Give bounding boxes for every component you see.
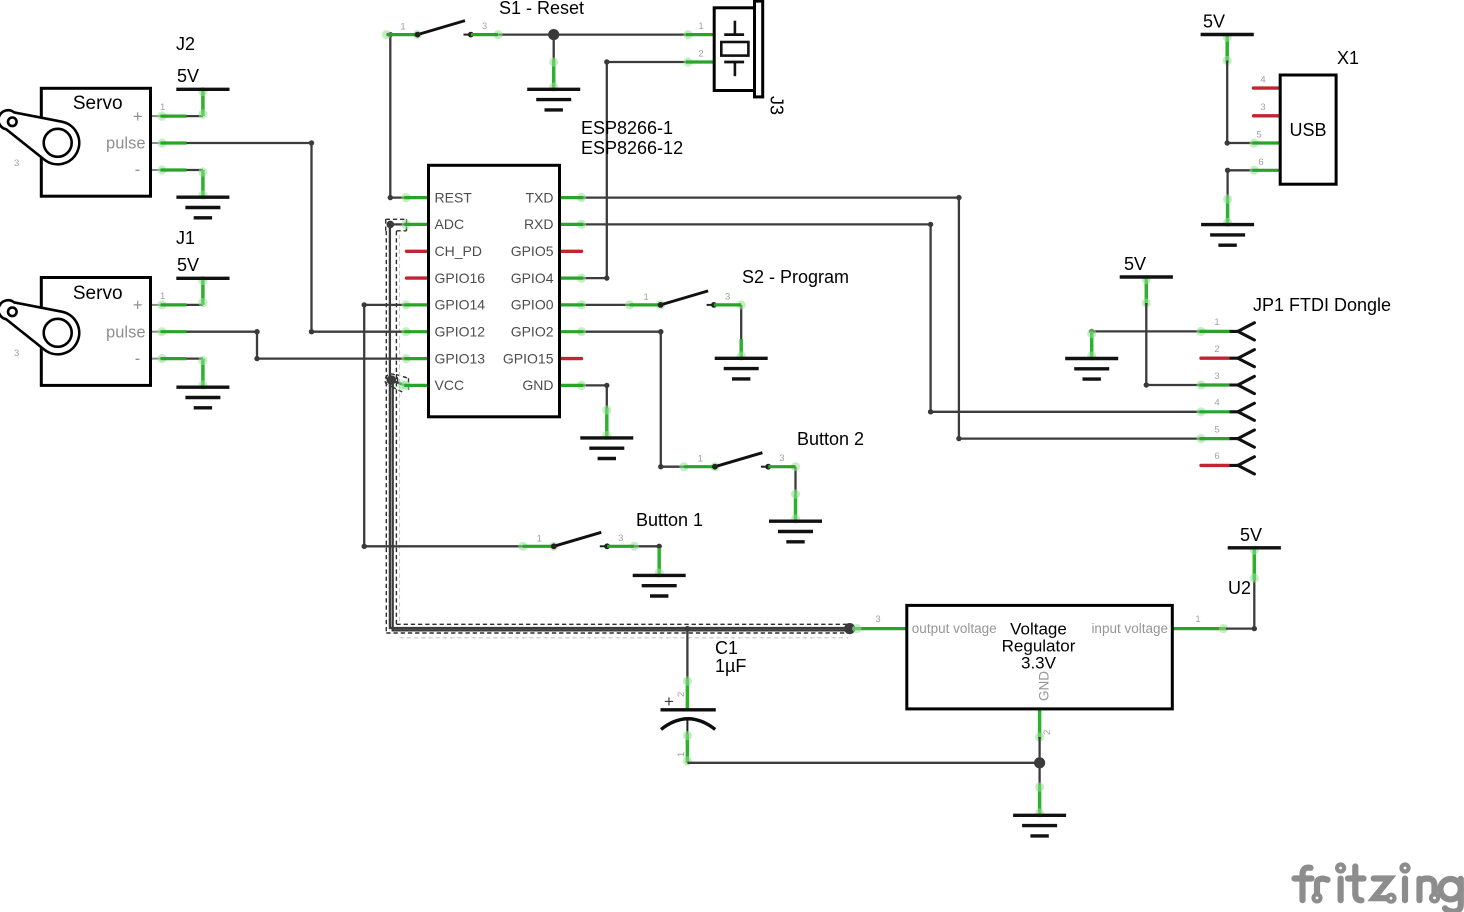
svg-text:GND: GND	[1037, 671, 1052, 701]
connector X1 USB body	[1280, 75, 1336, 184]
ground ESP GND	[580, 438, 633, 459]
svg-text:5: 5	[1214, 424, 1219, 435]
svg-text:5V: 5V	[177, 255, 199, 275]
svg-text:Servo: Servo	[73, 93, 123, 114]
svg-text:4: 4	[1214, 398, 1219, 409]
value 5V JP1	[1124, 254, 1146, 274]
capacitor C1 plates	[661, 692, 716, 729]
power 5V JP1	[1120, 276, 1173, 278]
label Servo J1	[73, 283, 123, 304]
wire TXD to JP1 pin5	[583, 195, 1199, 441]
svg-text:4: 4	[1260, 75, 1265, 86]
regulator name	[1002, 620, 1076, 673]
svg-text:5V: 5V	[177, 66, 199, 86]
ground S1	[527, 89, 580, 110]
node 3.3V output junction	[844, 623, 855, 634]
svg-text:-: -	[135, 161, 141, 179]
regulator pin numbers	[875, 614, 1200, 735]
svg-text:GPIO4: GPIO4	[511, 270, 554, 286]
svg-text:Button 1: Button 1	[636, 510, 703, 530]
servo J2 pin number 2	[14, 130, 19, 141]
JP1 unconnected pin 6 (red)	[1201, 464, 1230, 467]
label Servo J2	[73, 93, 123, 114]
servo J1 pin number 3	[14, 348, 19, 359]
svg-text:USB: USB	[1289, 120, 1326, 140]
svg-text:2: 2	[1042, 730, 1053, 735]
wire J1 minus pin to ground	[151, 354, 208, 390]
ground S2	[715, 358, 768, 379]
power 5V X1	[1201, 34, 1254, 36]
svg-text:REST: REST	[435, 189, 473, 205]
wire S1 pin1 to REST (vertical)	[388, 32, 405, 200]
net 3V3: dashed selection outline around ADC/VCC wire	[385, 219, 851, 638]
svg-text:J3: J3	[767, 96, 787, 115]
svg-text:RXD: RXD	[524, 216, 554, 232]
svg-text:U2: U2	[1228, 578, 1251, 598]
wire JP1 pin1 to ground	[1087, 329, 1199, 361]
svg-text:5: 5	[1256, 130, 1261, 141]
ESP8266 left pin legs (green)	[401, 193, 429, 390]
wire J2 pulse to GPIO12	[151, 138, 406, 334]
svg-text:CH_PD: CH_PD	[435, 243, 482, 259]
label JP1 FTDI Dongle	[1253, 295, 1391, 315]
wire S2 pin3 to ground	[737, 305, 746, 361]
ground Button1	[633, 575, 686, 596]
ESP8266 unconnected pin GPIO5 (red)	[559, 250, 582, 253]
ESP8266 unconnected pin GPIO16 (red)	[407, 276, 430, 279]
svg-text:S2 - Program: S2 - Program	[742, 267, 849, 287]
ground JP1	[1065, 359, 1118, 380]
ground J1	[176, 387, 229, 408]
ground J2	[176, 197, 229, 218]
wire J1 pulse to GPIO13	[151, 327, 406, 361]
svg-text:ESP8266-12: ESP8266-12	[581, 138, 683, 158]
wire ADC to 3.3V node (dashed-selected net)	[387, 221, 850, 631]
label ESP8266-1 / ESP8266-12	[581, 118, 683, 158]
servo J1 horn icon	[0, 300, 79, 354]
svg-text:1: 1	[698, 21, 703, 32]
X1 unconnected pin 3 (red)	[1254, 114, 1279, 117]
wire regulator pin3 (output) green	[852, 624, 907, 633]
wire X1 pin6 to ground	[1223, 168, 1252, 227]
value 5V U2	[1240, 525, 1262, 545]
fritzing watermark logo	[1295, 865, 1461, 912]
svg-text:1: 1	[160, 102, 165, 113]
svg-text:3: 3	[1214, 371, 1219, 382]
value 5V J2	[177, 66, 199, 86]
switch Button 2	[679, 453, 800, 472]
junction node S1/J3/GND	[548, 29, 559, 40]
wire S1 pin3 to junction to J3 pin1	[498, 33, 687, 35]
svg-text:GND: GND	[522, 377, 553, 393]
svg-text:+: +	[133, 297, 143, 315]
label J1	[176, 228, 195, 248]
svg-text:+: +	[664, 692, 674, 711]
label S2 - Program	[742, 267, 849, 287]
X1 pin legs 5 and 6 (green)	[1249, 138, 1280, 175]
servo J2 horn icon	[0, 110, 79, 164]
svg-text:ESP8266-1: ESP8266-1	[581, 118, 673, 138]
svg-text:C1: C1	[715, 638, 738, 658]
servo J2 port labels	[106, 102, 165, 179]
svg-text:TXD: TXD	[526, 189, 554, 205]
svg-text:3.3V: 3.3V	[1021, 653, 1057, 672]
servo J2 body	[41, 88, 150, 196]
switch Button 1	[518, 532, 639, 551]
svg-text:ADC: ADC	[435, 216, 465, 232]
JP1 pin legs 1,3,4,5 (green)	[1196, 327, 1231, 443]
node regulator GND junction	[1034, 757, 1045, 768]
ESP8266 unconnected pin CH_PD (red)	[407, 250, 430, 253]
svg-text:Servo: Servo	[73, 283, 123, 304]
svg-text:+: +	[133, 108, 143, 126]
wire GPIO4 to J3 pin2	[583, 59, 687, 280]
ESP8266 right pin legs (green)	[559, 193, 586, 390]
wire Button2 pin3 to ground	[791, 467, 800, 524]
svg-text:pulse: pulse	[106, 323, 145, 341]
svg-text:J2: J2	[176, 34, 195, 54]
label USB	[1289, 120, 1326, 140]
svg-text:-: -	[135, 350, 141, 368]
value 5V J1	[177, 255, 199, 275]
label J3 (rotated)	[767, 96, 787, 115]
svg-text:GPIO14: GPIO14	[435, 297, 486, 313]
wire regulator pin2 to node and ground	[1035, 708, 1044, 818]
wire J1 plus pin to 5V	[151, 276, 208, 310]
svg-text:GPIO16: GPIO16	[435, 270, 486, 286]
svg-text:5V: 5V	[1124, 254, 1146, 274]
ground regulator	[1013, 815, 1066, 836]
power 5V J2	[176, 88, 229, 90]
svg-text:input voltage: input voltage	[1091, 621, 1168, 636]
svg-text:2: 2	[1214, 344, 1219, 355]
label X1	[1337, 48, 1359, 68]
svg-text:GPIO15: GPIO15	[503, 350, 554, 366]
svg-text:6: 6	[1258, 157, 1263, 168]
wire JP1 5V drop to pin3	[1142, 275, 1199, 388]
svg-text:2: 2	[698, 49, 703, 60]
JP1 pin numbers	[1214, 317, 1219, 462]
servo J2 pin number 3	[14, 158, 19, 169]
wire GPIO14 to Button1 pin1	[362, 302, 524, 549]
value 5V X1	[1203, 12, 1225, 32]
JP1 unconnected pin 2 (red)	[1201, 357, 1230, 360]
svg-text:JP1 FTDI Dongle: JP1 FTDI Dongle	[1253, 295, 1391, 315]
switch S1 Reset	[382, 21, 503, 40]
wire junction to ground	[549, 35, 558, 92]
svg-text:6: 6	[1214, 451, 1219, 462]
label J2	[176, 34, 195, 54]
label U2	[1228, 578, 1251, 598]
wire ESP GND pin to ground	[583, 383, 611, 440]
label S1 - Reset	[499, 0, 584, 18]
wire C1 pin2 tap	[683, 626, 692, 710]
X1 unconnected pin 4 (red)	[1254, 86, 1279, 89]
svg-text:2: 2	[676, 692, 687, 697]
svg-text:J1: J1	[176, 228, 195, 248]
servo J1 pin number 2	[14, 320, 19, 331]
wire GPIO0 to S2 pin1	[583, 304, 633, 306]
svg-text:GPIO12: GPIO12	[435, 323, 486, 339]
J3 pin numbers	[698, 21, 703, 60]
wire X1 5V drop to pin5	[1223, 32, 1253, 145]
label C1 value 1uF	[715, 638, 746, 676]
wire Button1 pin3 to ground	[635, 544, 664, 578]
svg-text:output voltage: output voltage	[912, 621, 997, 636]
wire VCC tap to 3.3V vertical	[387, 375, 408, 389]
svg-text:VCC: VCC	[435, 377, 465, 393]
ESP8266 left pin labels	[435, 189, 486, 393]
svg-text:1: 1	[1214, 317, 1219, 328]
IC ESP8266 body	[429, 165, 560, 416]
crystal J3 body	[714, 1, 763, 97]
svg-text:3: 3	[14, 158, 19, 169]
wire regulator pin1 (input) to 5V U2	[1172, 545, 1259, 633]
svg-text:1µF: 1µF	[715, 656, 746, 676]
svg-text:GPIO2: GPIO2	[511, 323, 554, 339]
ESP8266 right pin labels	[503, 189, 554, 393]
label Button 1	[636, 510, 703, 530]
svg-text:GPIO0: GPIO0	[511, 297, 554, 313]
svg-text:3: 3	[875, 614, 880, 625]
label Button 2	[797, 429, 864, 449]
connector JP1 pin sockets	[1231, 323, 1255, 474]
regulator port labels	[912, 621, 1168, 701]
ESP8266 unconnected pin GPIO15 (red)	[559, 357, 582, 360]
svg-text:S1 - Reset: S1 - Reset	[499, 0, 584, 18]
J3 pin legs	[683, 30, 715, 67]
svg-text:5V: 5V	[1203, 12, 1225, 32]
svg-text:GPIO13: GPIO13	[435, 350, 486, 366]
wire J2 minus pin to ground	[151, 165, 208, 199]
svg-text:3: 3	[1260, 102, 1265, 113]
switch S2 Program	[625, 291, 746, 310]
servo J1 port labels	[106, 291, 165, 368]
wire C1 pin1 to regulator GND node	[683, 720, 1040, 766]
svg-text:Button 2: Button 2	[797, 429, 864, 449]
wire RXD to JP1 pin4	[583, 222, 1199, 415]
ground X1	[1201, 225, 1254, 246]
power 5V J1	[176, 277, 229, 279]
voltage regulator U2 body	[907, 605, 1173, 709]
wire J2 plus pin to 5V	[151, 87, 208, 121]
power 5V U2	[1228, 547, 1281, 549]
capacitor C1 pin numbers (rotated)	[676, 692, 687, 757]
servo J1 body	[41, 278, 150, 386]
X1 pin numbers	[1256, 75, 1265, 169]
svg-text:1: 1	[1195, 614, 1200, 625]
svg-text:1: 1	[676, 752, 687, 757]
svg-text:GPIO5: GPIO5	[511, 243, 554, 259]
wire GPIO2 to Button2 pin1	[583, 329, 685, 469]
ground Button2	[769, 521, 822, 542]
svg-text:pulse: pulse	[106, 135, 145, 153]
svg-text:5V: 5V	[1240, 525, 1262, 545]
svg-text:1: 1	[160, 291, 165, 302]
svg-text:X1: X1	[1337, 48, 1359, 68]
svg-text:3: 3	[14, 348, 19, 359]
